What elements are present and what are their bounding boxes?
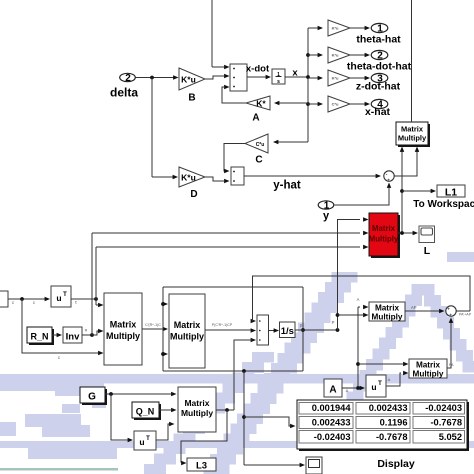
svg-text:Matrix: Matrix: [401, 125, 424, 134]
svg-text:Multiply: Multiply: [106, 331, 140, 341]
svg-text:K*u: K*u: [332, 76, 339, 81]
svg-text:z-dot-hat: z-dot-hat: [356, 81, 401, 93]
svg-text:P: P: [300, 324, 303, 329]
svg-text:-0.02403: -0.02403: [425, 403, 462, 413]
svg-text:C: C: [255, 155, 262, 166]
svg-text:0.1196: 0.1196: [380, 418, 408, 428]
svg-text:K*u: K*u: [181, 173, 196, 183]
svg-text:Multiply: Multiply: [413, 369, 444, 378]
svg-text:R: R: [85, 329, 88, 333]
svg-text:L: L: [424, 245, 431, 257]
svg-text:Matrix: Matrix: [416, 361, 441, 370]
svg-text:D: D: [190, 189, 197, 200]
svg-text:P(C'R^-1)CP: P(C'R^-1)CP: [212, 323, 233, 327]
svg-text:Multiply: Multiply: [398, 134, 427, 143]
svg-text:-0.7678: -0.7678: [430, 418, 462, 428]
svg-text:Display: Display: [377, 458, 415, 470]
svg-text:Matrix: Matrix: [174, 320, 201, 330]
svg-text:Q_N: Q_N: [136, 407, 155, 417]
svg-text:x: x: [292, 68, 298, 79]
svg-text:y: y: [323, 210, 330, 222]
svg-text:u: u: [139, 437, 144, 447]
svg-text:x-dot: x-dot: [246, 64, 270, 75]
svg-text:A: A: [346, 388, 349, 393]
svg-text:u: u: [56, 293, 61, 303]
svg-text:theta-dot-hat: theta-dot-hat: [347, 61, 412, 73]
svg-text:K*u: K*u: [332, 26, 339, 31]
svg-text:K*u: K*u: [332, 53, 339, 58]
svg-text:K*u: K*u: [181, 75, 196, 85]
svg-text:Multiply: Multiply: [369, 235, 399, 244]
svg-text:1/s: 1/s: [281, 326, 294, 337]
svg-text:Matrix: Matrix: [372, 224, 396, 233]
svg-text:P: P: [332, 320, 335, 325]
svg-text:PA: PA: [449, 363, 454, 367]
svg-text:K*: K*: [256, 99, 266, 109]
svg-text:1: 1: [277, 72, 280, 78]
svg-text:0.002433: 0.002433: [312, 418, 351, 428]
svg-text:R_N: R_N: [30, 332, 48, 342]
svg-text:PA'+AP: PA'+AP: [459, 313, 472, 317]
svg-text:T: T: [63, 292, 67, 298]
svg-text:G: G: [88, 392, 96, 403]
svg-text:-0.7678: -0.7678: [376, 432, 408, 442]
svg-text:5.052: 5.052: [439, 432, 462, 442]
svg-text:x-hat: x-hat: [365, 106, 391, 118]
svg-text:-0.02403: -0.02403: [314, 432, 351, 442]
svg-text:y-hat: y-hat: [273, 180, 301, 192]
svg-text:A: A: [252, 113, 259, 124]
svg-text:2: 2: [125, 73, 131, 84]
svg-text:Matrix: Matrix: [375, 304, 400, 313]
svg-text:To Workspace: To Workspace: [413, 199, 474, 210]
svg-text:C*u: C*u: [332, 102, 339, 107]
svg-text:A: A: [388, 377, 391, 382]
svg-text:AP: AP: [411, 305, 417, 310]
svg-text:L1: L1: [445, 187, 457, 199]
svg-text:Matrix: Matrix: [110, 320, 137, 330]
svg-text:A: A: [357, 297, 360, 302]
svg-text:T: T: [146, 436, 150, 442]
svg-text:C'(R^-1)C: C'(R^-1)C: [145, 323, 161, 327]
svg-text:L3: L3: [196, 461, 207, 472]
svg-text:Multiply: Multiply: [181, 408, 213, 418]
svg-text:u: u: [371, 382, 376, 392]
svg-text:delta: delta: [110, 86, 138, 100]
svg-text:theta-hat: theta-hat: [356, 34, 401, 46]
svg-text:0.001944: 0.001944: [312, 403, 352, 413]
svg-text:Multiply: Multiply: [170, 332, 204, 342]
svg-text:C*u: C*u: [256, 142, 265, 148]
svg-text:0.002433: 0.002433: [369, 403, 408, 413]
svg-text:T: T: [378, 381, 382, 387]
svg-text:B: B: [188, 93, 195, 104]
svg-text:Matrix: Matrix: [184, 398, 209, 408]
svg-text:Multiply: Multiply: [372, 312, 403, 321]
svg-text:s: s: [277, 79, 280, 85]
svg-text:A: A: [329, 385, 336, 396]
svg-text:Inv: Inv: [66, 332, 80, 343]
